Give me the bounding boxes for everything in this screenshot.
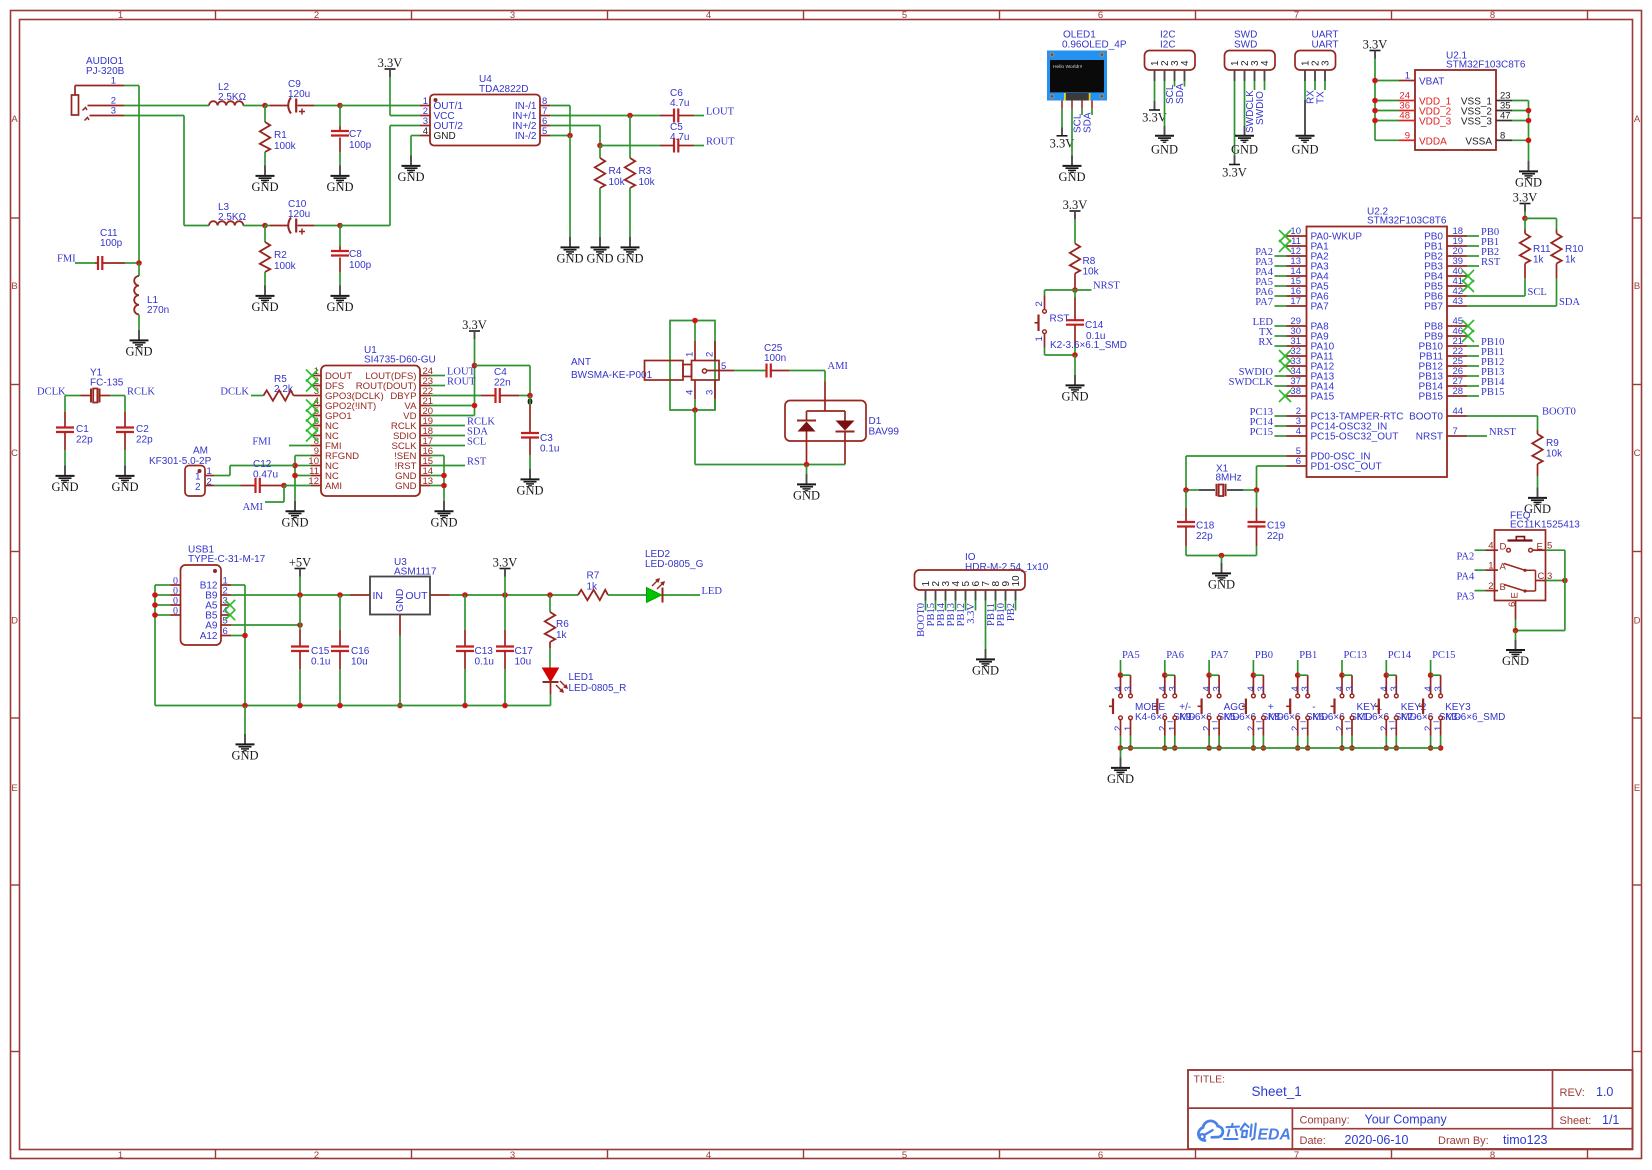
svg-text:PD1-OSC_OUT: PD1-OSC_OUT (1311, 462, 1382, 473)
ANT pin 2 (714, 341, 716, 361)
svg-text:2020-06-10: 2020-06-10 (1345, 1133, 1409, 1147)
net label LED (1275, 325, 1287, 327)
node junction L3/R2/C10 (262, 223, 268, 229)
node junction NRST (1072, 287, 1078, 293)
node junction C4 right (527, 393, 533, 399)
wire PD0 to crystal (1186, 455, 1287, 457)
U1 pin 24 LOUT(DFS) (420, 375, 430, 377)
node junction 3.3V R11/R10 (1522, 216, 1528, 222)
svg-text:TX: TX (1316, 91, 1327, 104)
svg-text:DCLK: DCLK (37, 387, 66, 398)
svg-text:BOOT0: BOOT0 (1542, 407, 1576, 418)
svg-text:1: 1 (1034, 336, 1045, 341)
net label SCL at U1 pin17 (430, 445, 465, 447)
ground below rail (244, 706, 246, 735)
svg-text:3: 3 (1321, 60, 1332, 66)
svg-text:22p: 22p (76, 435, 93, 446)
svg-text:PB7: PB7 (1424, 302, 1443, 313)
svg-text:100n: 100n (764, 353, 786, 364)
OLED pin 2 to ground (1071, 101, 1073, 109)
svg-text:ANT: ANT (571, 357, 591, 368)
U2.2 pin 25 PB12 (1447, 365, 1467, 367)
svg-text:1: 1 (118, 10, 123, 21)
svg-text:4: 4 (1180, 60, 1191, 66)
svg-text:22p: 22p (1267, 531, 1284, 542)
svg-text:GND: GND (972, 664, 999, 678)
svg-text:E: E (1509, 592, 1520, 598)
ground below R9 (1537, 488, 1539, 498)
U2.2 pin 3 PC14-OSC32_IN (1287, 425, 1307, 427)
resistor R1 100k (264, 106, 266, 123)
ANT pin 1 (694, 341, 696, 361)
resistor R4 10k (599, 146, 601, 159)
U2.2 pin 20 PB2 (1447, 255, 1467, 257)
U2.2 pin 14 PA4 (1287, 275, 1307, 277)
svg-text:1/1: 1/1 (1602, 1113, 1619, 1127)
resistor R9 10k (1537, 430, 1539, 434)
wire 3.3V to VA/VD (474, 339, 476, 416)
capacitor C15 0.1u (299, 595, 301, 630)
svg-text:VDDA: VDDA (1419, 136, 1447, 147)
svg-text:BOOT0: BOOT0 (1409, 412, 1443, 423)
svg-text:UART: UART (1312, 40, 1339, 51)
svg-text:PA7: PA7 (1311, 302, 1330, 313)
svg-text:VSS_3: VSS_3 (1461, 117, 1493, 128)
svg-text:2: 2 (195, 482, 201, 493)
wire VBUS row to U3 IN (231, 594, 350, 596)
svg-text:2: 2 (1488, 581, 1493, 592)
svg-text:GND: GND (251, 180, 278, 194)
no-connect X on U1 left pin (306, 400, 318, 412)
svg-text:GND: GND (430, 515, 457, 529)
resistor R6 1k (549, 595, 551, 612)
svg-text:GND: GND (434, 131, 456, 142)
svg-text:C8: C8 (349, 249, 362, 260)
svg-text:1: 1 (1433, 726, 1444, 731)
svg-text:10: 10 (1011, 575, 1022, 587)
U1 pin 13 GND (420, 485, 430, 487)
net label SWDIO (1275, 375, 1287, 377)
resistor R2 100k (264, 226, 266, 243)
node junction C9/C7 (337, 103, 343, 109)
USB1 pin 3 A5 (221, 604, 231, 606)
wire antenna shield loop (670, 321, 695, 411)
svg-text:8: 8 (1490, 1150, 1495, 1161)
U2.2 pin 42 PB6 (1447, 295, 1467, 297)
svg-text:1: 1 (1167, 726, 1178, 731)
net label PA3 (1275, 265, 1287, 267)
svg-text:OUT: OUT (405, 590, 428, 602)
svg-text:GND: GND (556, 252, 583, 266)
U2.1 pin 1 VBAT (1399, 80, 1415, 82)
svg-text:3.3V: 3.3V (1063, 198, 1088, 212)
pushbutton RST K2-3.6x6.1_SMD (1044, 296, 1046, 310)
U1 pin 14 GND (420, 475, 430, 477)
logo text LiChuang glyphs drawn as strokes (1224, 1124, 1256, 1140)
FEQ pin 3 C (1536, 580, 1546, 582)
svg-text:GND: GND (1107, 772, 1134, 786)
svg-text:GND: GND (586, 252, 613, 266)
svg-text:C3: C3 (540, 433, 553, 444)
ground U4 pin4 (410, 156, 412, 166)
ground below R3 (629, 237, 631, 247)
U4 pin 7 IN+/1 (540, 115, 550, 117)
capacitor C2 22p (124, 412, 126, 428)
svg-text:PA15: PA15 (1311, 392, 1335, 403)
svg-text:C: C (1538, 571, 1545, 582)
U1 pin 20 VD (420, 415, 430, 417)
svg-text:GND: GND (1058, 170, 1085, 184)
net label LOUT at U1 pin24 (430, 375, 445, 377)
svg-text:RST: RST (1481, 257, 1501, 268)
wire VA row (430, 405, 475, 407)
svg-text:D: D (1634, 616, 1641, 627)
node junction pin13 (441, 483, 447, 489)
U4 pin 5 IN-/2 (540, 135, 550, 137)
node junction C12/AMI (281, 483, 287, 489)
svg-text:2: 2 (1034, 301, 1045, 306)
wire AM pin1 to U1 pin10 net (214, 475, 230, 477)
ground below R1 (264, 166, 266, 176)
U4 pin 4 GND (420, 135, 430, 137)
U2.2 pin 10 PA0-WKUP (1287, 235, 1307, 237)
svg-text:B: B (11, 281, 17, 292)
svg-text:GND: GND (397, 170, 424, 184)
I2C pin4 SDA (1184, 70, 1186, 81)
ground below D1 (806, 465, 808, 475)
ground below U2.1 (1528, 161, 1530, 171)
svg-text:GND: GND (394, 588, 406, 612)
svg-text:R1: R1 (274, 130, 287, 141)
U2.1 pin 36 VDD_2 (1399, 110, 1415, 112)
node junction C10/C8 (337, 223, 343, 229)
U4 pin 6 IN+/2 (540, 125, 550, 127)
svg-text:3: 3 (705, 390, 716, 395)
svg-text:2: 2 (314, 10, 319, 21)
node junction D1 anode (804, 462, 810, 468)
node junction R3 top (627, 113, 633, 119)
svg-text:5: 5 (542, 126, 547, 137)
no-connect X on USB A5 (225, 600, 235, 610)
svg-text:6: 6 (1098, 1150, 1103, 1161)
svg-text:VDD_3: VDD_3 (1419, 117, 1452, 128)
svg-text:6: 6 (1098, 10, 1103, 21)
node junction pin14 (441, 473, 447, 479)
wire audio pin2 to L2 (124, 105, 209, 107)
U2.2 pin 31 PA10 (1287, 345, 1307, 347)
node junction +5V (297, 592, 303, 598)
U1 pin 4 GPO2(!INT) (311, 405, 321, 407)
capacitor C7 100p (339, 106, 341, 127)
ground below C3 (529, 469, 531, 479)
svg-text:PB1: PB1 (1299, 650, 1317, 661)
svg-text:3: 3 (1167, 686, 1178, 691)
U2.2 pin 37 PA14 (1287, 385, 1307, 387)
ANT pin 4 (694, 380, 696, 399)
ground below U1 left (294, 501, 296, 511)
svg-text:1: 1 (1256, 726, 1267, 731)
svg-text:SWDIO: SWDIO (1255, 91, 1266, 125)
svg-text:3.3V: 3.3V (1222, 166, 1247, 180)
wire U4 pin5 (550, 135, 570, 137)
wire key ground rail (1121, 747, 1441, 749)
U2.2 pin 21 PB10 (1447, 345, 1467, 347)
wire IO pin7 to ground (985, 601, 987, 650)
wire antenna ground rail (694, 410, 696, 465)
svg-text:GND: GND (111, 480, 138, 494)
svg-text:EDA: EDA (1258, 1127, 1291, 1144)
net label PB11 (1467, 355, 1479, 357)
USB1 pin 2 B9 (221, 594, 231, 596)
svg-text:K3-6×6_SMD: K3-6×6_SMD (1445, 712, 1505, 723)
svg-text:3.3V: 3.3V (966, 603, 977, 624)
U1 pin 23 ROUT(DOUT) (420, 385, 430, 387)
capacitor C14 0.1u (1074, 290, 1076, 298)
svg-text:Hello World!!!: Hello World!!! (1053, 64, 1082, 70)
svg-text:2: 2 (314, 1150, 319, 1161)
ANT pin 3 (714, 380, 716, 399)
svg-text:1: 1 (1405, 71, 1410, 82)
svg-text:C1: C1 (76, 424, 89, 435)
svg-text:38: 38 (1290, 386, 1301, 397)
U4 pin 3 OUT/2 (420, 125, 430, 127)
svg-text:C4: C4 (494, 367, 507, 378)
svg-text:Sheet_1: Sheet_1 (1252, 1084, 1302, 1099)
net label RST at U1 pin15 (430, 465, 465, 467)
svg-text:SI4735-D60-GU: SI4735-D60-GU (364, 355, 436, 366)
svg-text:3.3V: 3.3V (378, 56, 403, 70)
U1 pin 10 NC (311, 465, 321, 467)
wire 3.3V to U4 VCC (389, 77, 391, 116)
svg-text:PA2: PA2 (1457, 552, 1475, 563)
svg-text:ROUT: ROUT (447, 377, 476, 388)
wire FEQ right down (1564, 550, 1566, 630)
FEQ switch levers (1504, 564, 1525, 571)
svg-text:SCL: SCL (467, 437, 486, 448)
OLED pin 3 SCL (1081, 101, 1083, 109)
U2.2 pin 46 PB9 (1447, 335, 1467, 337)
svg-text:4: 4 (1296, 426, 1301, 437)
SWD pin2 to ground (1244, 70, 1246, 81)
svg-text:3: 3 (510, 1150, 515, 1161)
ANT SMA body (645, 361, 684, 381)
svg-text:PJ-320B: PJ-320B (86, 66, 125, 77)
USB1 shield pin left (171, 604, 181, 606)
net label PA6 (1275, 295, 1287, 297)
svg-text:22p: 22p (136, 435, 153, 446)
svg-text:1: 1 (1345, 726, 1356, 731)
net label PA7 (1275, 305, 1287, 307)
svg-text:0: 0 (173, 606, 178, 617)
svg-text:GND: GND (516, 484, 543, 498)
net label RX (1275, 345, 1287, 347)
svg-text:3: 3 (1389, 686, 1400, 691)
svg-text:1: 1 (111, 76, 116, 87)
svg-text:LED: LED (702, 586, 723, 597)
U2.2 pin 29 PA8 (1287, 325, 1307, 327)
net label SWDCLK (1275, 385, 1287, 387)
svg-text:GND: GND (326, 180, 353, 194)
net label TX (1275, 335, 1287, 337)
ground below key rail (1120, 748, 1122, 758)
AM pin2 lead (205, 485, 214, 487)
svg-text:GND: GND (51, 480, 78, 494)
node junction pin6 (242, 633, 248, 639)
wire C8 node to U4 pin3 (340, 225, 390, 227)
U1 pin 15 !RST (420, 465, 430, 467)
wire ground rail USB section (155, 705, 551, 707)
net label PB12 (1467, 365, 1479, 367)
U1 pin 22 DBYP (420, 395, 430, 397)
svg-text:4: 4 (706, 10, 711, 21)
I2C pin1 to 3.3V (1154, 70, 1156, 81)
U2.2 pin 39 PB3 (1447, 265, 1467, 267)
svg-text:0.1u: 0.1u (540, 444, 559, 455)
U2.1 pin 24 VDD_1 (1399, 100, 1415, 102)
wire to RST button (1045, 289, 1076, 291)
svg-text:Your Company: Your Company (1365, 1113, 1448, 1127)
wire SCL from PB6 to R11 (1467, 295, 1525, 297)
U2.2 pin 40 PB4 (1447, 275, 1467, 277)
U1 pin 12 AMI (311, 485, 321, 487)
svg-text:1k: 1k (1533, 255, 1545, 266)
node junction crystal right (1254, 487, 1260, 493)
svg-text:R4: R4 (609, 166, 622, 177)
wire ROUT row (600, 145, 660, 147)
LED LED1 red (543, 668, 559, 682)
net label PC14 (1275, 425, 1287, 427)
svg-text:C2: C2 (136, 424, 149, 435)
svg-text:Sheet:: Sheet: (1560, 1115, 1592, 1127)
U2.2 pin 4 PC15-OSC32_OUT (1287, 435, 1307, 437)
no-connect X on U1 left pin (306, 370, 318, 382)
U2.2 pin 41 PB5 (1447, 285, 1467, 287)
svg-text:10k: 10k (639, 177, 656, 188)
ground below U1 right (443, 501, 445, 511)
svg-text:100k: 100k (274, 141, 297, 152)
svg-text:SWD: SWD (1234, 40, 1257, 51)
svg-text:GND: GND (1231, 143, 1258, 157)
svg-text:B: B (1500, 582, 1506, 593)
svg-text:R2: R2 (274, 250, 287, 261)
svg-text:GND: GND (231, 749, 258, 763)
U2.2 pin 2 PC13-TAMPER-RTC (1287, 415, 1307, 417)
node junction VA (472, 403, 478, 409)
svg-text:AM: AM (193, 446, 208, 457)
svg-text:RST: RST (1050, 314, 1070, 325)
svg-text:0.1u: 0.1u (311, 657, 330, 668)
FEQ button symbol (1508, 539, 1533, 541)
svg-text:3: 3 (1212, 686, 1223, 691)
node junction crystal left (1183, 487, 1189, 493)
svg-text:PA7: PA7 (1255, 297, 1273, 308)
svg-text:1k: 1k (556, 630, 568, 641)
FEQ pin 1 A (1475, 569, 1486, 571)
node junction FEQ gnd (1513, 628, 1519, 634)
svg-text:EC11K1525413: EC11K1525413 (1510, 520, 1580, 531)
svg-text:2: 2 (705, 352, 716, 357)
wire U1 SEN/GND pins to ground (430, 455, 444, 457)
svg-text:NRST: NRST (1093, 281, 1120, 292)
U1 pin 18 SDIO (420, 435, 430, 437)
svg-text:3: 3 (1300, 686, 1311, 691)
U2.1 pin 48 VDD_3 (1399, 120, 1415, 122)
U2.2 pin 11 PA1 (1287, 245, 1307, 247)
node junction antenna bottom (692, 407, 698, 413)
net label PB10 (1467, 345, 1479, 347)
svg-text:GND: GND (1291, 143, 1318, 157)
U2.2 pin 27 PB14 (1447, 385, 1467, 387)
svg-text:4: 4 (706, 1150, 711, 1161)
node junction C14 bottom (1072, 352, 1078, 358)
svg-text:PB15: PB15 (1481, 387, 1504, 398)
svg-text:PC15: PC15 (1250, 427, 1273, 438)
svg-text:STM32F103C8T6: STM32F103C8T6 (1367, 216, 1447, 227)
SWD pin3 SWDCLK (1254, 70, 1256, 81)
U2.2 pin 15 PA5 (1287, 285, 1307, 287)
svg-text:100k: 100k (274, 261, 297, 272)
logo LCEDA (1198, 1121, 1223, 1141)
svg-text:3: 3 (1123, 686, 1134, 691)
resistor R10 1k pullup (1556, 230, 1558, 234)
svg-text:4: 4 (1488, 541, 1493, 552)
svg-text:BAV99: BAV99 (869, 427, 900, 438)
svg-text:timo123: timo123 (1503, 1133, 1548, 1147)
U4 pin 1 OUT/1 (420, 105, 430, 107)
svg-text:A12: A12 (200, 631, 218, 642)
USB1 pin 6 A12 (221, 635, 231, 637)
U1 pin 7 NC (311, 435, 321, 437)
svg-text:3.3V: 3.3V (493, 556, 518, 570)
svg-text:NRST: NRST (1416, 432, 1443, 443)
no-connect X on U1 left pin (306, 380, 318, 392)
U1 pin 5 GPO1 (311, 415, 321, 417)
svg-text:FMI: FMI (252, 437, 271, 448)
net label PA2 (1275, 255, 1287, 257)
svg-text:A: A (1500, 562, 1507, 573)
svg-text:GND: GND (1208, 578, 1235, 592)
svg-text:4.7u: 4.7u (670, 98, 689, 109)
node junction R4/ROUT (597, 143, 603, 149)
svg-text:47: 47 (1500, 111, 1511, 122)
U1 pin 19 RCLK (420, 425, 430, 427)
svg-text:VSSA: VSSA (1465, 136, 1492, 147)
node junction crystal gnd (1219, 553, 1225, 559)
svg-text:PC14: PC14 (1388, 650, 1412, 661)
no-connect X on U1 left pin (306, 420, 318, 432)
SWD pin1 to 3.3V (1234, 70, 1236, 81)
svg-text:LED-0805_G: LED-0805_G (645, 559, 704, 570)
svg-text:PA5: PA5 (1122, 650, 1140, 661)
U2.2 pin 12 PA2 (1287, 255, 1307, 257)
svg-text:C15: C15 (311, 646, 330, 657)
svg-text:TITLE:: TITLE: (1194, 1074, 1226, 1086)
svg-text:6: 6 (1296, 456, 1301, 467)
svg-text:43: 43 (1453, 296, 1464, 307)
svg-text:GND: GND (125, 345, 152, 359)
ANT pin 5 output (707, 370, 735, 372)
wire Y1 right down to C2 (124, 396, 126, 413)
U2.1 pin 9 VDDA (1399, 139, 1415, 141)
svg-text:Date:: Date: (1300, 1135, 1326, 1147)
wire crystal ground (1186, 555, 1257, 557)
U2.2 pin 7 NRST (1447, 435, 1467, 437)
svg-text:FMI: FMI (57, 254, 76, 265)
capacitor C17 10u (504, 595, 506, 630)
OLED pin 1 to 3.3V (1061, 101, 1063, 109)
wire SDA from PB7 to R10 (1467, 305, 1557, 307)
U2.1 pin 35 VSS_2 (1496, 110, 1512, 112)
